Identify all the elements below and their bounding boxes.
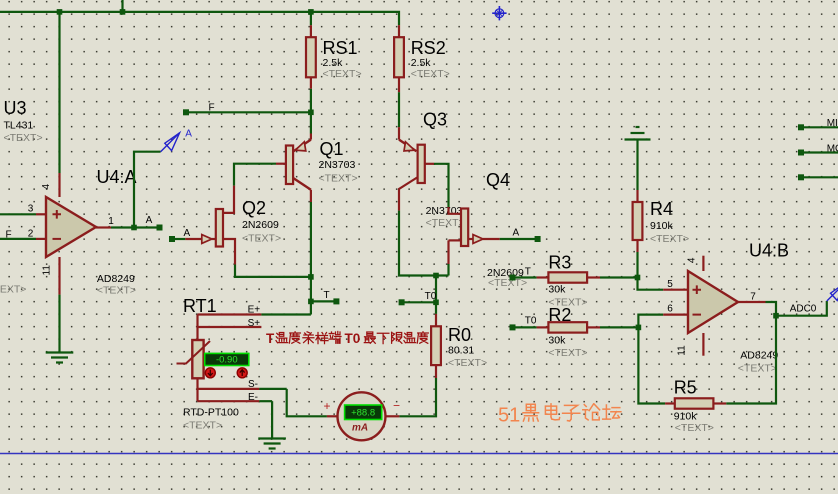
resistor R2 pins (537, 326, 549, 328)
transistor Q4 source pin (449, 239, 462, 241)
svg-text:<TEXT>: <TEXT> (0, 284, 26, 296)
ammeter LCD display (345, 405, 382, 420)
svg-text:A: A (513, 228, 520, 239)
resistor R4 pins (636, 190, 638, 202)
resistor R2 (548, 322, 587, 332)
U4:A pin 3 wire (0, 213, 36, 215)
svg-text:A: A (185, 129, 192, 140)
resistor R0 pins (435, 314, 437, 326)
svg-text:T0: T0 (345, 331, 361, 346)
terminal node T (333, 298, 339, 304)
svg-text:Q3: Q3 (423, 109, 447, 129)
wire node F stub (186, 111, 311, 113)
RT1 S+ pin wire (198, 326, 262, 328)
svg-text:E+: E+ (248, 305, 261, 316)
svg-text:7: 7 (750, 292, 756, 303)
svg-text:RTD-PT100: RTD-PT100 (183, 406, 239, 418)
svg-text:+: + (323, 399, 330, 413)
svg-text:2.5k: 2.5k (411, 57, 432, 69)
ground under RT1 E- (258, 437, 286, 439)
svg-text:AD8249: AD8249 (97, 273, 135, 285)
transistor Q3 emitter pin (398, 127, 400, 140)
svg-text:<TEXT>: <TEXT> (675, 422, 714, 434)
transistor Q3 base bar (418, 145, 425, 183)
ammeter minus pin (387, 415, 400, 417)
resistor RS1 (306, 37, 316, 77)
wire S- to ammeter plus (287, 389, 327, 416)
terminal node T at R3 (510, 275, 516, 281)
svg-text:RT1: RT1 (183, 296, 217, 316)
svg-text:RS2: RS2 (411, 38, 446, 58)
resistor R0 (431, 326, 441, 365)
wire U4:A output up to probe A (134, 152, 161, 228)
junction R2/R5/pin6 (636, 325, 642, 331)
RT1 value display LCD (205, 353, 249, 365)
wire pin5 node to U4:B pin 5 (638, 278, 664, 290)
junction node F on emitter wire (308, 110, 314, 116)
resistor R3 pins (537, 276, 549, 278)
svg-text:2: 2 (28, 228, 34, 239)
terminal node A at U4:A output (157, 225, 163, 231)
svg-text:TL431: TL431 (4, 120, 34, 132)
transistor Q4 gate pin (468, 238, 473, 240)
wire node T to R3 (513, 276, 537, 278)
svg-text:A: A (184, 228, 191, 239)
resistor R3 (548, 272, 587, 282)
wire node A to Q2 gate (172, 238, 185, 240)
svg-text:AD8249: AD8249 (740, 349, 778, 361)
svg-text:<TEXT>: <TEXT> (97, 285, 136, 297)
svg-text:<TEXT>: <TEXT> (319, 172, 358, 184)
terminal MOSI 1 (798, 124, 804, 130)
Q2 gate arrow (202, 235, 212, 244)
junction top rail / RS1 (308, 9, 314, 15)
RT1 S- pin wire (198, 388, 260, 390)
wire pin6 node to U4:B pin 6 (638, 315, 663, 328)
RT1 diagonal stroke (177, 341, 211, 364)
svg-text:U3: U3 (4, 98, 27, 118)
junction R3/R4/pin5 (635, 275, 641, 281)
svg-text:Q4: Q4 (486, 170, 510, 190)
svg-text:T0: T0 (525, 315, 537, 326)
ground under U4:A pin 11 (46, 351, 74, 353)
RT1 down button (205, 368, 215, 378)
transistor Q2 gate pin (185, 238, 202, 240)
wire MOSI 1 (801, 126, 838, 128)
terminal node T0 at R2 (510, 324, 516, 330)
terminal node T0 (399, 299, 405, 305)
svg-text:5: 5 (667, 279, 673, 290)
wire Q2 source to T node (235, 265, 311, 277)
terminal MOSI 2 (798, 150, 804, 156)
wire RS1 top stub (310, 12, 312, 25)
wire ground to R4 (636, 140, 638, 191)
wire output junction to ADC0 probe (776, 301, 827, 316)
wire Q3 collector to T0 node (399, 211, 449, 276)
op-amp U4:A body (46, 197, 96, 257)
svg-text:80.31: 80.31 (448, 345, 474, 357)
svg-text:2N3703: 2N3703 (426, 205, 463, 217)
ground above R4 (inverted) (636, 126, 640, 128)
ammeter plus pin (327, 415, 338, 417)
svg-text:mA: mA (352, 422, 368, 433)
U4:A minus sign (53, 238, 62, 240)
svg-text:<TEXT>: <TEXT> (323, 68, 362, 80)
U4:B plus sign (693, 285, 702, 294)
transistor Q4 channel bar (461, 209, 468, 247)
svg-text:U4:A: U4:A (97, 167, 137, 187)
U4:A pin 4 wire (58, 12, 60, 173)
svg-text:-0.90: -0.90 (216, 355, 238, 366)
wire R3 to U4:B pin5 node (600, 276, 638, 278)
resistor RS2 pins (398, 25, 400, 37)
svg-text:6: 6 (667, 304, 673, 315)
svg-text:30k: 30k (548, 334, 566, 346)
svg-text:910k: 910k (650, 220, 674, 232)
svg-text:4: 4 (687, 257, 698, 263)
op-amp U4:B body (688, 271, 738, 333)
svg-text:<TEXT>: <TEXT> (4, 132, 43, 144)
wire E- to ground (271, 401, 273, 438)
junction Q1 collector / Q2 source (308, 274, 314, 280)
transistor Q1 collector pin (293, 178, 311, 190)
svg-text:4: 4 (41, 184, 52, 190)
U4:A plus sign (53, 210, 62, 219)
RT1 up button (237, 368, 247, 378)
U4:A pin 11 wire (58, 257, 60, 295)
svg-text:51: 51 (498, 404, 520, 426)
svg-text:<TEXT>: <TEXT> (448, 357, 487, 369)
junction at U4:A output (131, 225, 137, 231)
svg-text:2.5k: 2.5k (323, 57, 344, 69)
Q3 emitter arrow (404, 142, 415, 151)
wire node T stub (311, 300, 337, 302)
svg-text:R4: R4 (650, 199, 673, 219)
U4:A pin 2 wire (0, 238, 36, 240)
svg-text:3: 3 (28, 203, 34, 214)
transistor Q1 base bar (286, 146, 293, 185)
resistor RS1 pins (310, 25, 312, 37)
terminal node F (183, 109, 189, 115)
wire RS2 bottom to Q3 emitter (398, 92, 400, 127)
svg-text:<TEXT>: <TEXT> (650, 233, 689, 245)
wire Q1 collector down to T node (310, 202, 312, 315)
wire Q4 gate to node A (500, 238, 538, 240)
thermistor RT1 body (192, 340, 203, 378)
wire R4 bottom to pin5 node (636, 252, 638, 278)
svg-text:<TEXT>: <TEXT> (411, 68, 450, 80)
junction node T0 (433, 300, 439, 306)
svg-text:2N3703: 2N3703 (319, 159, 356, 171)
wire RS1 bottom to Q1 emitter (310, 89, 312, 134)
svg-text:<TEXT>: <TEXT> (183, 419, 222, 431)
wire MOSI 2 (801, 151, 838, 153)
origin marker (492, 6, 506, 20)
junction top rail / U4:A pin4 (57, 9, 63, 15)
svg-text:T0: T0 (425, 291, 437, 302)
resistor R4 (633, 202, 643, 240)
transistor Q1 emitter pin (310, 134, 312, 140)
svg-text:A: A (146, 215, 153, 226)
wire right 3 (801, 176, 838, 178)
svg-text:U4:B: U4:B (749, 241, 789, 261)
resistor R5 pins (665, 402, 675, 404)
svg-text:R3: R3 (548, 252, 571, 272)
svg-text:1: 1 (108, 216, 114, 227)
RT1 E+ pin wire (198, 313, 262, 315)
RT1 top pins vertical (196, 315, 198, 341)
Q4 gate arrow (473, 235, 483, 244)
svg-text:<TEXT>: <TEXT> (738, 363, 777, 375)
wire stub up at x=122.5 (121, 0, 123, 12)
svg-text:F: F (5, 229, 11, 240)
svg-text:R2: R2 (548, 305, 571, 325)
svg-text:Q1: Q1 (320, 139, 344, 159)
transistor Q3 base pin (425, 163, 434, 165)
wire R0 bottom to ammeter (399, 378, 436, 416)
svg-text:30k: 30k (548, 283, 566, 295)
svg-text:<TEXT>: <TEXT> (242, 233, 281, 245)
wire Q3 base to Q4 drain (434, 164, 449, 207)
wire node T0 stub (402, 301, 436, 303)
svg-text:Q2: Q2 (242, 198, 266, 218)
svg-text:11: 11 (677, 345, 688, 356)
wire Q4 source down (447, 264, 449, 276)
transistor Q2 source pin (223, 239, 235, 265)
svg-text:910k: 910k (674, 410, 698, 422)
Q1 emitter arrow (295, 142, 306, 151)
svg-text:E-: E- (248, 392, 258, 403)
transistor Q3 collector pin (399, 177, 418, 211)
wire Q1 base to Q2 drain (234, 164, 276, 186)
terminal node A at Q4 gate (535, 236, 541, 242)
svg-text:RS1: RS1 (323, 38, 358, 58)
junction U4:B output / R5 / ADC0 (773, 313, 779, 319)
U4:A output pin 1 wire (96, 226, 111, 228)
U4:B pin 4 wire (702, 256, 704, 271)
svg-text:T: T (266, 331, 275, 346)
svg-text:11: 11 (41, 265, 52, 276)
junction node T (308, 299, 314, 305)
svg-text:<TEXT>: <TEXT> (548, 347, 587, 359)
junction Q3 collector / Q4 source (433, 273, 439, 279)
RT1 E- pin wire (198, 400, 260, 402)
svg-text:ADC0: ADC0 (790, 304, 817, 315)
svg-text:<TEXT>: <TEXT> (426, 217, 465, 229)
svg-text:2N2609: 2N2609 (242, 219, 279, 231)
wire node T0 to R2 (513, 326, 537, 328)
transistor Q2 channel bar (216, 209, 223, 247)
resistor R5 (675, 398, 714, 408)
wire R5 to output junction (726, 316, 776, 404)
transistor Q1 base pin (276, 163, 286, 165)
svg-text:MISO: MISO (827, 118, 838, 129)
terminal right 3 (798, 174, 804, 180)
svg-text:T: T (324, 290, 330, 301)
resistor RS2 (394, 37, 404, 77)
wire top supply rail (0, 12, 399, 25)
svg-text:MOSI: MOSI (827, 143, 838, 154)
junction top rail / stub up (120, 9, 126, 15)
svg-text:+88.8: +88.8 (351, 408, 375, 419)
svg-text:S-: S- (248, 379, 258, 390)
wire R2 to U4:B pin6 node (600, 326, 638, 328)
U4:B pin 11 wire (702, 333, 704, 356)
voltage probe A (161, 133, 180, 152)
U4:B minus sign (693, 314, 702, 316)
svg-text:R5: R5 (674, 378, 697, 398)
ammeter body (338, 392, 386, 440)
terminal node A at Q2 gate (169, 236, 175, 242)
svg-text:T: T (525, 267, 531, 278)
svg-text:F: F (209, 103, 215, 114)
svg-text:R0: R0 (448, 325, 471, 345)
svg-text:S+: S+ (248, 318, 261, 329)
wire pin6 node down to R5 (638, 327, 665, 403)
RT1 bottom pins vertical (196, 378, 198, 401)
sheet border line (0, 453, 838, 455)
wire T0 node down (435, 276, 437, 314)
U4:B output pin 7 wire (738, 301, 766, 303)
svg-text:−: − (393, 399, 400, 413)
voltage probe ADC0 (clipped) (827, 283, 838, 301)
